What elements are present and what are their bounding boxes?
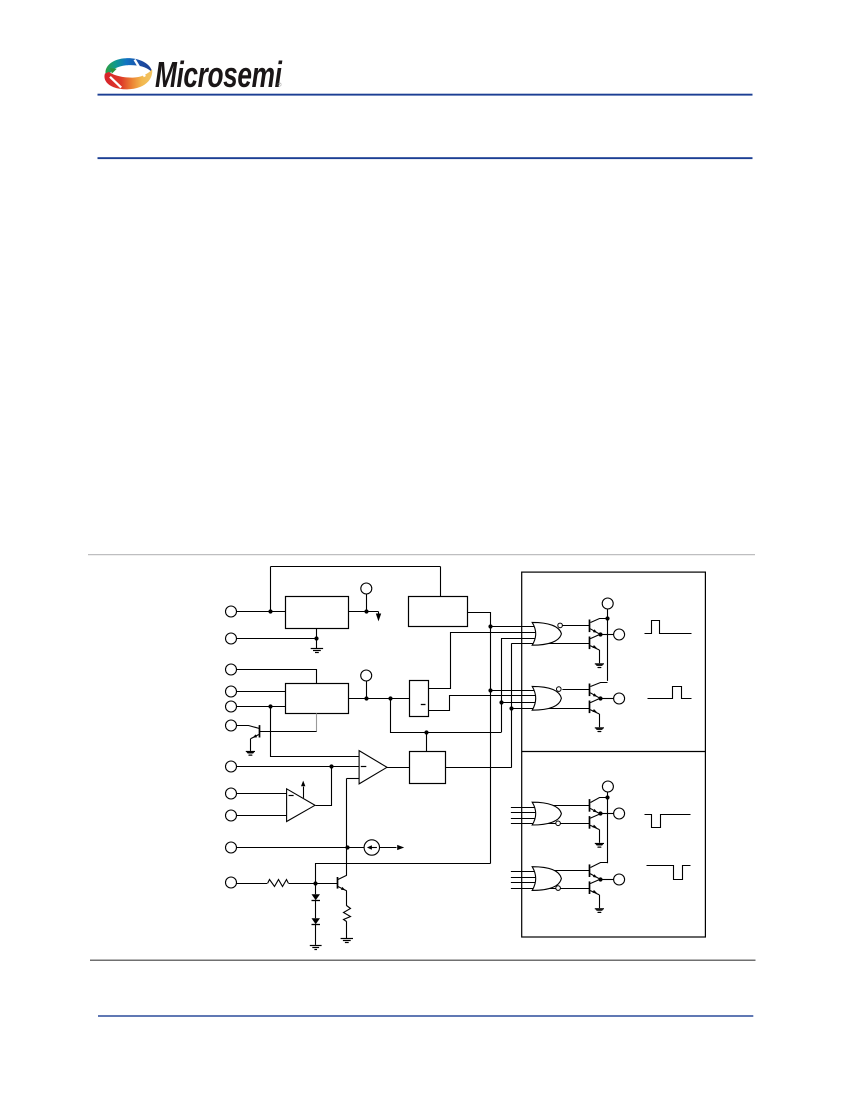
waveform output A pulse	[645, 621, 692, 634]
transistor output-driver bottom NPN base bar	[589, 816, 591, 829]
transistor output-driver top NPN base bar	[589, 799, 591, 812]
transistor output-driver bottom NPN base bar	[589, 637, 591, 650]
wire bottom emitter	[590, 891, 599, 895]
wire OSC-OUT	[237, 691, 286, 693]
wire top collector	[591, 683, 608, 687]
wire flip-flop Qbar to NOR B	[429, 696, 537, 711]
ground shutdown	[246, 751, 255, 752]
wire noninverting input	[237, 815, 287, 817]
terminal VC supply pin B	[602, 781, 613, 792]
wire PWM line to NOR B bottom base	[512, 708, 590, 710]
wire D1 to D2	[315, 901, 317, 919]
wire emitter to ground	[599, 895, 601, 908]
block output stage enclosure	[522, 572, 706, 937]
wire VC rail B	[607, 792, 609, 864]
wire SYNC	[237, 670, 317, 684]
wire clock rail riser to NOR gates	[501, 638, 503, 732]
wire regulator ground stem	[316, 628, 318, 638]
diode D1	[312, 894, 321, 900]
wire NOR D top output	[552, 870, 590, 872]
pin OSC-OUT terminal	[226, 686, 237, 697]
wire Q2 collector	[338, 875, 347, 879]
node discharge junction	[268, 704, 272, 708]
wire Q1 collector	[259, 731, 317, 733]
label error amp minus	[289, 795, 294, 797]
wire emitter to ground	[599, 714, 601, 727]
wire stub 3 NOR D	[511, 882, 536, 884]
node output junction	[598, 811, 602, 815]
node COMP junction	[329, 764, 333, 768]
wire comparator output	[387, 767, 409, 769]
block sync-control U3	[286, 684, 349, 714]
terminal clock pin	[361, 670, 372, 681]
block oscillator U2	[409, 597, 468, 627]
wire bottom emitter	[590, 825, 599, 829]
wire top collector	[591, 863, 608, 868]
wire PWM rail riser	[511, 643, 513, 767]
block flip-flop U4	[410, 681, 429, 717]
wire PWM latch output	[445, 767, 512, 769]
wire clock pin stem	[366, 681, 368, 699]
node output junction	[598, 877, 602, 881]
wire discharge input	[237, 706, 286, 708]
transistor output-driver top NPN base bar	[589, 684, 591, 697]
wire output stage divider	[522, 751, 706, 753]
gate NOR D	[532, 867, 561, 891]
wire ground drop	[316, 638, 318, 648]
svg-text:®: ®	[278, 82, 282, 89]
waveform output C notch	[645, 815, 691, 828]
wire NOR B output to top base	[562, 689, 589, 691]
wire top emitter	[590, 629, 600, 635]
wire CT drop to Q2	[346, 848, 348, 876]
wire PWM line to NOR A bottom base	[512, 643, 590, 645]
gate NOR A	[532, 622, 561, 645]
transistor output-driver top NPN base bar	[589, 864, 591, 877]
section divider gray rule	[88, 554, 755, 555]
node GND junction	[314, 636, 318, 640]
wire COMP to comparator	[237, 766, 360, 768]
wire VIN riser	[270, 567, 272, 612]
wire stub 1 NOR C	[511, 807, 536, 809]
wire gray link to sync block	[316, 713, 318, 731]
resistor emitter R1	[344, 906, 351, 922]
wire output	[600, 698, 614, 700]
gate NOR C	[532, 802, 561, 825]
wire bottom collector	[590, 634, 600, 638]
node output junction	[598, 696, 602, 700]
wire error amp output riser	[316, 767, 332, 806]
wire VREF pin stem	[366, 594, 368, 611]
wire output	[600, 879, 614, 881]
wire shutdown base	[237, 726, 260, 729]
wire clock drop to PWM rail	[391, 699, 502, 733]
waveform output D notch	[647, 866, 691, 880]
svg-text:Microsemi: Microsemi	[155, 54, 282, 95]
wire top feed to oscillator	[271, 566, 441, 568]
ground earth symbol	[311, 648, 323, 650]
pin SYNC terminal	[226, 664, 237, 675]
wire stub 2 NOR D	[511, 877, 536, 879]
wire emitter to ground	[599, 650, 601, 663]
wire bottom collector	[590, 879, 600, 883]
block reference regulator U1	[286, 597, 349, 629]
wire output	[600, 634, 614, 636]
transistor output-driver top NPN base bar	[589, 620, 591, 633]
wire NOR A output to top base	[562, 625, 589, 627]
wire bottom collector	[590, 814, 600, 818]
wire Q2 emitter	[338, 886, 347, 891]
wire Q1 emitter to ground	[250, 739, 252, 751]
resistor RT	[268, 880, 289, 887]
node osc to NOR A	[488, 624, 492, 628]
wire GND	[237, 638, 317, 640]
terminal VREF pin	[361, 583, 372, 594]
pin inverting input terminal	[226, 788, 237, 799]
terminal VC supply pin A	[602, 598, 613, 609]
ground output stage	[595, 843, 604, 844]
wire VC rail A	[607, 609, 609, 681]
node RT junction	[313, 881, 317, 885]
ground output stage	[595, 908, 604, 909]
wire CT riser to comparator	[346, 778, 348, 847]
node latch set junction	[424, 730, 428, 734]
arrow to internal circuitry	[378, 612, 380, 615]
transistor output-driver bottom NPN base bar	[589, 881, 591, 894]
wire top collector	[591, 798, 608, 803]
label flip-flop dash	[421, 704, 426, 706]
wire RT lead	[237, 883, 268, 885]
wire R1 to ground	[346, 921, 348, 938]
header rule lower blue	[98, 157, 753, 159]
wire NOR C top output	[552, 805, 590, 807]
Microsemi logo icon	[104, 58, 152, 89]
node VIN junction	[268, 609, 272, 613]
wire flip-flop Q to NOR A	[429, 633, 537, 689]
wire bottom emitter	[590, 710, 599, 714]
op-amp PWM comparator A2	[359, 751, 387, 784]
wire inverting input	[237, 793, 287, 795]
label comparator minus	[361, 766, 367, 768]
transistor output-driver bottom NPN base bar	[589, 701, 591, 714]
wire oscillator VIN drop	[440, 567, 442, 597]
ground diode earth	[310, 945, 322, 947]
pin COMP terminal	[226, 761, 237, 772]
wire drop to PWM latch	[426, 732, 428, 752]
wire ramp input	[347, 778, 359, 780]
wire osc stub NOR B	[490, 690, 536, 692]
wire diode chain top	[315, 883, 317, 894]
ground output stage	[595, 663, 604, 664]
wire top emitter	[590, 874, 600, 880]
wire stub 2 NOR C	[511, 812, 536, 814]
wire top emitter	[590, 693, 600, 699]
node CT junction	[345, 845, 349, 849]
wire stub 3 NOR C	[511, 818, 536, 820]
wire D2 to ground	[315, 925, 317, 945]
node clock junction B	[388, 696, 392, 700]
pin discharge terminal	[226, 701, 237, 712]
current source constant-current	[364, 840, 379, 855]
wire emitter to ground	[599, 830, 601, 843]
wire oscillator output	[468, 613, 491, 864]
wire current source output arrow	[380, 847, 397, 849]
arrow error amp trim	[303, 787, 305, 798]
node output junction	[598, 632, 602, 636]
waveform output B pulse	[648, 687, 692, 699]
terminal output pin	[614, 629, 625, 640]
ground R1 earth	[341, 938, 353, 940]
wire stub 4 NOR C to bottom base	[511, 823, 590, 825]
wire CT	[237, 847, 365, 849]
pin shutdown terminal	[226, 720, 237, 731]
wire stub 1 NOR D	[511, 871, 536, 873]
node VREF junction	[364, 609, 368, 613]
gate NOR B	[532, 686, 561, 710]
terminal output pin	[614, 874, 625, 885]
node PWM to NOR B	[509, 706, 513, 710]
terminal output pin	[614, 808, 625, 819]
wire osc stub NOR A	[490, 626, 536, 628]
pin VIN terminal	[226, 606, 237, 617]
pin GND terminal	[226, 633, 237, 644]
footer rule dark	[90, 960, 756, 961]
wire RT to base	[289, 883, 338, 885]
wire clock stub NOR B	[501, 702, 536, 704]
wire osc return to RT	[316, 864, 491, 884]
pin RT terminal	[226, 877, 237, 888]
transistor discharge Q2 base bar	[337, 877, 339, 889]
wire bottom collector	[590, 698, 600, 702]
wire clock stub NOR A	[501, 638, 536, 640]
wire output	[600, 813, 614, 815]
wire stub 4 NOR D to bottom base	[511, 888, 590, 890]
terminal output pin	[614, 693, 625, 704]
wire reference output	[348, 611, 378, 613]
transistor shutdown Q1 base bar	[259, 725, 261, 737]
footer rule blue	[98, 1015, 753, 1016]
op-amp error amplifier A1	[287, 789, 315, 822]
wire Q2 emitter drop	[346, 891, 348, 906]
block PWM latch U5	[410, 752, 446, 784]
node clock to NOR B	[499, 700, 503, 704]
node clock junction A	[364, 696, 368, 700]
wire top emitter	[590, 808, 600, 814]
wire Q1 emitter	[251, 735, 259, 739]
diode D2	[312, 918, 321, 924]
wire VIN to reference regulator	[237, 611, 286, 613]
wire bottom emitter	[590, 646, 599, 650]
pin noninverting input terminal	[226, 810, 237, 821]
node osc to NOR B	[488, 688, 492, 692]
wire sync block output to flip-flop	[348, 698, 409, 700]
wire discharge to comparator	[271, 707, 360, 757]
ground output stage	[595, 727, 604, 728]
wire top collector	[591, 619, 608, 623]
header rule upper blue	[98, 94, 753, 96]
pin CT terminal	[226, 842, 237, 853]
